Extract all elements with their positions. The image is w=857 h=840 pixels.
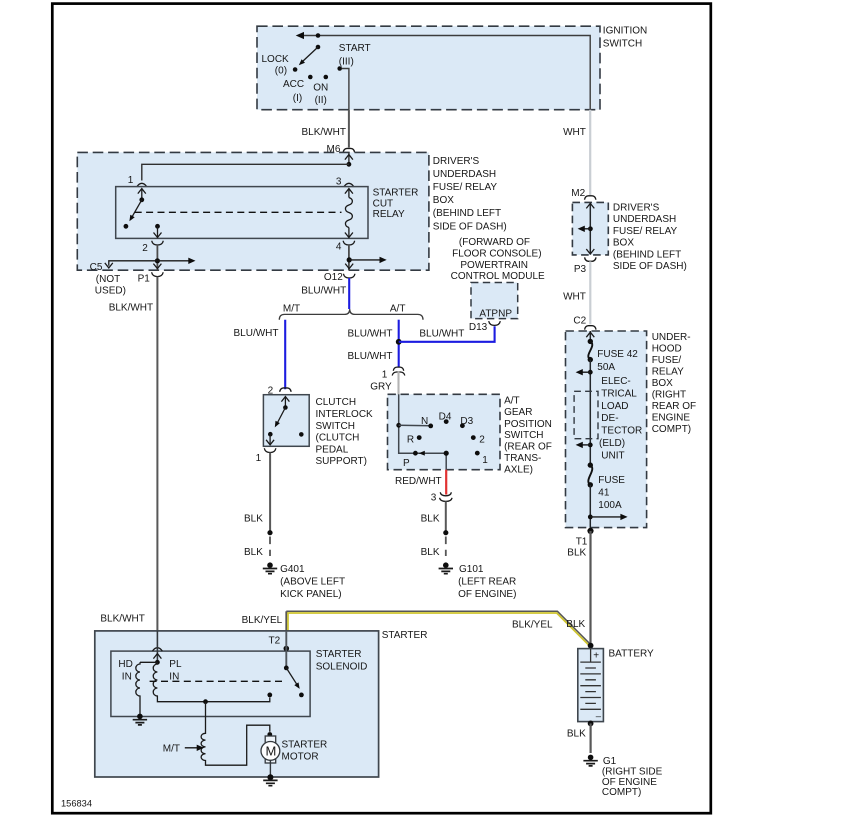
svg-text:ENGINE: ENGINE bbox=[652, 413, 691, 424]
svg-text:FUSE/: FUSE/ bbox=[652, 355, 682, 366]
contact R bbox=[417, 435, 422, 440]
svg-text:RELAY: RELAY bbox=[373, 209, 405, 220]
svg-text:HD: HD bbox=[118, 659, 132, 670]
svg-text:CUT: CUT bbox=[373, 198, 394, 209]
svg-text:UNIT: UNIT bbox=[601, 450, 624, 461]
wire motor to ground bbox=[269, 760, 271, 777]
wire A/T branch (BLU/WHT) bbox=[398, 320, 400, 367]
node at relay feed bbox=[347, 162, 352, 167]
svg-text:WHT: WHT bbox=[563, 127, 586, 138]
solenoid link dashed bbox=[150, 680, 286, 682]
relay switch arm pin1 bbox=[141, 189, 143, 200]
connector P3 bbox=[585, 257, 596, 261]
svg-text:BLK/WHT: BLK/WHT bbox=[100, 614, 144, 625]
svg-text:FUSE/ RELAY: FUSE/ RELAY bbox=[433, 182, 498, 193]
svg-text:STARTER: STARTER bbox=[373, 188, 419, 199]
svg-text:BLK: BLK bbox=[244, 513, 263, 524]
wire BLK to G401 bbox=[269, 453, 271, 532]
svg-text:ACC: ACC bbox=[283, 79, 304, 90]
svg-text:(0): (0) bbox=[275, 65, 287, 76]
svg-text:START: START bbox=[339, 43, 371, 54]
wire BLK/YEL starter to battery bbox=[286, 611, 589, 643]
svg-text:COMPT): COMPT) bbox=[602, 787, 641, 798]
wire common in A/T switch bbox=[399, 394, 447, 469]
svg-text:UNDER-: UNDER- bbox=[652, 332, 691, 343]
svg-text:N: N bbox=[421, 416, 428, 427]
wire pin4 junction bbox=[348, 245, 350, 270]
arrow left ignition feed bbox=[296, 32, 304, 39]
svg-text:G101: G101 bbox=[459, 564, 484, 575]
svg-text:ON: ON bbox=[313, 83, 328, 94]
svg-text:(ELD): (ELD) bbox=[599, 438, 625, 449]
wire bbox=[589, 360, 591, 466]
svg-text:M/T: M/T bbox=[283, 304, 300, 315]
svg-text:STARTER: STARTER bbox=[382, 630, 428, 641]
wire to pin 1 bbox=[142, 164, 349, 180]
svg-text:POSITION: POSITION bbox=[504, 419, 552, 430]
wire WHT P3 to C2 bbox=[589, 261, 591, 324]
svg-text:DRIVER'S: DRIVER'S bbox=[613, 203, 660, 214]
svg-text:(BEHIND LEFT: (BEHIND LEFT bbox=[433, 208, 501, 219]
pin 2 bbox=[152, 241, 164, 245]
svg-text:(BEHIND LEFT: (BEHIND LEFT bbox=[613, 249, 681, 260]
svg-text:BLK/YEL: BLK/YEL bbox=[242, 615, 283, 626]
svg-text:(NOT: (NOT bbox=[96, 274, 120, 285]
svg-text:BLK: BLK bbox=[567, 728, 586, 739]
contact N bbox=[428, 424, 433, 429]
connector O12 bbox=[343, 274, 355, 278]
svg-text:FLOOR CONSOLE): FLOOR CONSOLE) bbox=[452, 248, 541, 259]
wire BLK battery to G1 bbox=[589, 723, 591, 753]
svg-text:KICK PANEL): KICK PANEL) bbox=[280, 589, 342, 600]
connector pin 1 bbox=[264, 448, 276, 452]
pin 4 bbox=[343, 241, 355, 245]
wire to T1 bbox=[589, 485, 591, 530]
branch arrow other circuits (small box) bbox=[584, 228, 590, 230]
clutch pin1 arrow bbox=[269, 434, 271, 443]
starter box bbox=[95, 631, 379, 777]
svg-text:PEDAL: PEDAL bbox=[316, 445, 349, 456]
svg-text:R: R bbox=[407, 434, 414, 445]
wire to D13 (BLU/WHT) bbox=[399, 326, 495, 342]
node ignition top bbox=[316, 33, 321, 38]
svg-text:LOCK: LOCK bbox=[262, 54, 290, 65]
solenoid switch bbox=[285, 631, 287, 668]
svg-text:BOX: BOX bbox=[652, 378, 673, 389]
svg-text:INTERLOCK: INTERLOCK bbox=[316, 409, 374, 420]
svg-text:T1: T1 bbox=[576, 537, 588, 548]
svg-text:BOX: BOX bbox=[613, 238, 634, 249]
svg-text:+: + bbox=[593, 650, 599, 661]
connector D13 bbox=[489, 321, 501, 325]
svg-text:G401: G401 bbox=[280, 564, 305, 575]
svg-text:1: 1 bbox=[128, 175, 134, 186]
svg-text:SIDE OF DASH): SIDE OF DASH) bbox=[433, 221, 507, 232]
svg-text:A/T: A/T bbox=[504, 396, 520, 407]
ground (solenoid) bbox=[133, 714, 147, 725]
svg-text:FUSE/ RELAY: FUSE/ RELAY bbox=[613, 226, 678, 237]
svg-text:SWITCH: SWITCH bbox=[504, 430, 543, 441]
svg-text:DE-: DE- bbox=[601, 413, 618, 424]
svg-text:GEAR: GEAR bbox=[504, 407, 532, 418]
contact START bbox=[337, 66, 342, 71]
wire START to M6 bbox=[342, 69, 349, 111]
svg-text:CONTROL MODULE: CONTROL MODULE bbox=[451, 271, 545, 282]
underhood fuse/relay box bbox=[566, 331, 647, 528]
contact D3 bbox=[460, 423, 465, 428]
svg-text:1: 1 bbox=[256, 453, 262, 464]
svg-text:POWERTRAIN: POWERTRAIN bbox=[460, 260, 528, 271]
clutch interlock switch bbox=[263, 395, 309, 447]
terminal T2 bbox=[284, 646, 290, 652]
svg-text:SIDE OF DASH): SIDE OF DASH) bbox=[613, 261, 687, 272]
svg-text:BOX: BOX bbox=[433, 195, 454, 206]
svg-text:M2: M2 bbox=[571, 188, 585, 199]
svg-text:HOOD: HOOD bbox=[652, 344, 682, 355]
svg-text:GRY: GRY bbox=[370, 381, 392, 392]
relay contact bbox=[124, 224, 129, 229]
inline connector 1 bbox=[392, 367, 405, 375]
svg-text:100A: 100A bbox=[598, 500, 622, 511]
contact P bbox=[413, 451, 418, 456]
ATPNP box bbox=[471, 283, 518, 319]
contact ACC bbox=[308, 75, 313, 80]
svg-text:SWITCH: SWITCH bbox=[603, 38, 642, 49]
branch to C5 not used bbox=[109, 261, 158, 266]
contact 2 bbox=[471, 435, 476, 440]
branch arrow (below ELD) bbox=[588, 443, 593, 448]
svg-text:50A: 50A bbox=[597, 362, 615, 373]
svg-text:BLU/WHT: BLU/WHT bbox=[348, 329, 393, 340]
relay coil pins 3-4 bbox=[348, 190, 350, 198]
svg-text:C5: C5 bbox=[90, 262, 103, 273]
svg-text:REAR OF: REAR OF bbox=[652, 401, 696, 412]
node P common bbox=[444, 451, 449, 456]
starter motor bbox=[267, 732, 272, 737]
svg-text:DRIVER'S: DRIVER'S bbox=[433, 156, 480, 167]
wire P1 to starter (BLK/WHT) bbox=[156, 277, 158, 631]
svg-text:1: 1 bbox=[382, 369, 388, 380]
terminal T1 bbox=[587, 528, 593, 534]
ground G401 bbox=[263, 562, 277, 573]
svg-text:STARTER: STARTER bbox=[282, 740, 328, 751]
svg-text:BLU/WHT: BLU/WHT bbox=[234, 328, 279, 339]
svg-text:FUSE: FUSE bbox=[598, 475, 625, 486]
wire BLK to G101 bbox=[445, 501, 447, 531]
wire into box bbox=[589, 331, 591, 341]
svg-text:(LEFT REAR: (LEFT REAR bbox=[458, 577, 516, 588]
svg-text:1: 1 bbox=[482, 455, 488, 466]
svg-text:156834: 156834 bbox=[61, 798, 92, 808]
M/T starter motor coil bbox=[201, 702, 270, 766]
svg-text:BLK: BLK bbox=[244, 547, 263, 558]
contact D4 bbox=[444, 419, 449, 424]
svg-text:C2: C2 bbox=[573, 315, 586, 326]
branch arrow other circuits (pin4) bbox=[349, 259, 380, 261]
svg-text:BLU/WHT: BLU/WHT bbox=[301, 286, 346, 297]
wire ignition internal to WHT bbox=[298, 36, 590, 110]
wire M6 into box bbox=[348, 152, 350, 164]
clutch contact right bbox=[299, 432, 304, 437]
ground G1 bbox=[583, 755, 597, 766]
ground G101 bbox=[439, 562, 453, 573]
svg-text:LOAD: LOAD bbox=[601, 401, 628, 412]
ground (starter motor) bbox=[267, 774, 273, 780]
wire BLK T1 to battery bbox=[589, 531, 591, 644]
svg-text:3: 3 bbox=[431, 493, 437, 504]
ignition switch lever pivot bbox=[316, 45, 321, 50]
clutch contact lower bbox=[268, 432, 273, 437]
svg-text:D4: D4 bbox=[439, 411, 452, 422]
svg-text:P: P bbox=[403, 458, 410, 469]
svg-text:TECTOR: TECTOR bbox=[601, 426, 642, 437]
svg-text:ATPNP: ATPNP bbox=[479, 308, 512, 319]
svg-text:(III): (III) bbox=[339, 57, 354, 68]
svg-text:AXLE): AXLE) bbox=[504, 464, 533, 475]
svg-text:STARTER: STARTER bbox=[316, 649, 362, 660]
svg-text:TRANS-: TRANS- bbox=[504, 453, 541, 464]
svg-text:(RIGHT SIDE: (RIGHT SIDE bbox=[602, 766, 663, 777]
wire M/T branch (BLU/WHT) bbox=[284, 320, 286, 390]
svg-text:BATTERY: BATTERY bbox=[609, 648, 655, 659]
svg-text:BLK/WHT: BLK/WHT bbox=[109, 302, 153, 313]
svg-text:RELAY: RELAY bbox=[652, 367, 684, 378]
fuse 41 100A bbox=[588, 462, 593, 467]
driver's underdash fuse/relay box (right small) bbox=[572, 202, 608, 255]
svg-text:BLK: BLK bbox=[566, 619, 585, 630]
svg-text:USED): USED) bbox=[95, 286, 126, 297]
svg-text:(II): (II) bbox=[315, 95, 327, 106]
inline connector 3 bbox=[440, 492, 453, 501]
branch arrow other circuits (T1) bbox=[590, 516, 621, 518]
svg-text:FUSE 42: FUSE 42 bbox=[597, 349, 638, 360]
wire O12 down (BLU/WHT) bbox=[348, 278, 350, 309]
contact LOCK bbox=[293, 67, 298, 72]
svg-text:OF ENGINE): OF ENGINE) bbox=[458, 589, 516, 600]
svg-text:UNDERDASH: UNDERDASH bbox=[433, 169, 496, 180]
ignition switch box bbox=[257, 26, 600, 110]
svg-text:(FORWARD OF: (FORWARD OF bbox=[459, 237, 530, 248]
svg-text:SWITCH: SWITCH bbox=[316, 421, 355, 432]
fuse 42 50A bbox=[588, 341, 592, 359]
battery bbox=[588, 643, 594, 649]
A/T gear position switch box bbox=[388, 394, 501, 469]
starter cut relay bbox=[116, 187, 368, 239]
svg-text:MOTOR: MOTOR bbox=[282, 752, 319, 763]
svg-text:2: 2 bbox=[142, 243, 148, 254]
wire through small box bbox=[589, 203, 591, 254]
brace M/T vs A/T bbox=[279, 309, 423, 320]
svg-text:SUPPORT): SUPPORT) bbox=[316, 456, 368, 467]
wire WHT ignition to M2 bbox=[589, 110, 591, 196]
wire into solenoid bbox=[152, 648, 162, 651]
relay link dashed bbox=[135, 211, 342, 213]
svg-text:(I): (I) bbox=[293, 93, 302, 104]
svg-text:IN: IN bbox=[122, 671, 132, 682]
starter solenoid box bbox=[111, 651, 310, 716]
driver's underdash fuse/relay box (left) bbox=[77, 152, 429, 270]
svg-text:IGNITION: IGNITION bbox=[603, 26, 647, 37]
clutch switch arm bbox=[284, 398, 286, 408]
svg-text:T2: T2 bbox=[269, 636, 281, 647]
wire GRY bbox=[397, 372, 399, 396]
svg-text:M/T: M/T bbox=[163, 744, 180, 755]
svg-text:P1: P1 bbox=[138, 274, 151, 285]
svg-text:BLK: BLK bbox=[421, 513, 440, 524]
border frame bbox=[52, 4, 711, 814]
svg-text:(ABOVE LEFT: (ABOVE LEFT bbox=[280, 577, 345, 588]
branch arrow other circuits (pin2) bbox=[157, 260, 189, 262]
svg-text:(CLUTCH: (CLUTCH bbox=[316, 432, 360, 443]
svg-text:P3: P3 bbox=[574, 264, 587, 275]
svg-text:–: – bbox=[596, 711, 602, 722]
contact ON bbox=[324, 75, 329, 80]
svg-text:2: 2 bbox=[479, 434, 485, 445]
svg-text:BLU/WHT: BLU/WHT bbox=[348, 351, 393, 362]
wire pin2 junction bbox=[156, 245, 158, 270]
svg-text:BLU/WHT: BLU/WHT bbox=[419, 329, 464, 340]
svg-text:COMPT): COMPT) bbox=[652, 424, 691, 435]
svg-text:M: M bbox=[266, 744, 277, 759]
svg-text:(REAR OF: (REAR OF bbox=[504, 442, 552, 453]
svg-text:PL: PL bbox=[169, 659, 182, 670]
svg-text:G1: G1 bbox=[603, 756, 617, 767]
svg-text:RED/WHT: RED/WHT bbox=[395, 476, 442, 487]
relay contact to pin 2 bbox=[155, 224, 160, 229]
branch arrow (above ELD) bbox=[582, 371, 590, 373]
svg-text:WHT: WHT bbox=[563, 291, 586, 302]
ignition switch lever bbox=[303, 47, 319, 62]
svg-text:BLK/WHT: BLK/WHT bbox=[302, 127, 346, 138]
connector P1 bbox=[152, 272, 164, 276]
svg-text:4: 4 bbox=[336, 242, 342, 253]
svg-text:D13: D13 bbox=[469, 322, 488, 333]
svg-text:ELEC-: ELEC- bbox=[601, 376, 630, 387]
svg-text:CLUTCH: CLUTCH bbox=[316, 397, 357, 408]
svg-text:41: 41 bbox=[598, 487, 610, 498]
svg-text:UNDERDASH: UNDERDASH bbox=[613, 214, 676, 225]
svg-text:O12: O12 bbox=[324, 272, 343, 283]
ELD unit box bbox=[574, 391, 598, 438]
contact 1 bbox=[475, 451, 480, 456]
svg-text:BLK: BLK bbox=[567, 548, 586, 559]
svg-text:TRICAL: TRICAL bbox=[601, 388, 637, 399]
svg-text:BLK/YEL: BLK/YEL bbox=[512, 619, 553, 630]
svg-text:A/T: A/T bbox=[390, 304, 406, 315]
svg-text:(RIGHT: (RIGHT bbox=[652, 390, 686, 401]
svg-text:SOLENOID: SOLENOID bbox=[316, 662, 368, 673]
svg-text:D3: D3 bbox=[460, 416, 473, 427]
svg-text:BLK: BLK bbox=[421, 547, 440, 558]
